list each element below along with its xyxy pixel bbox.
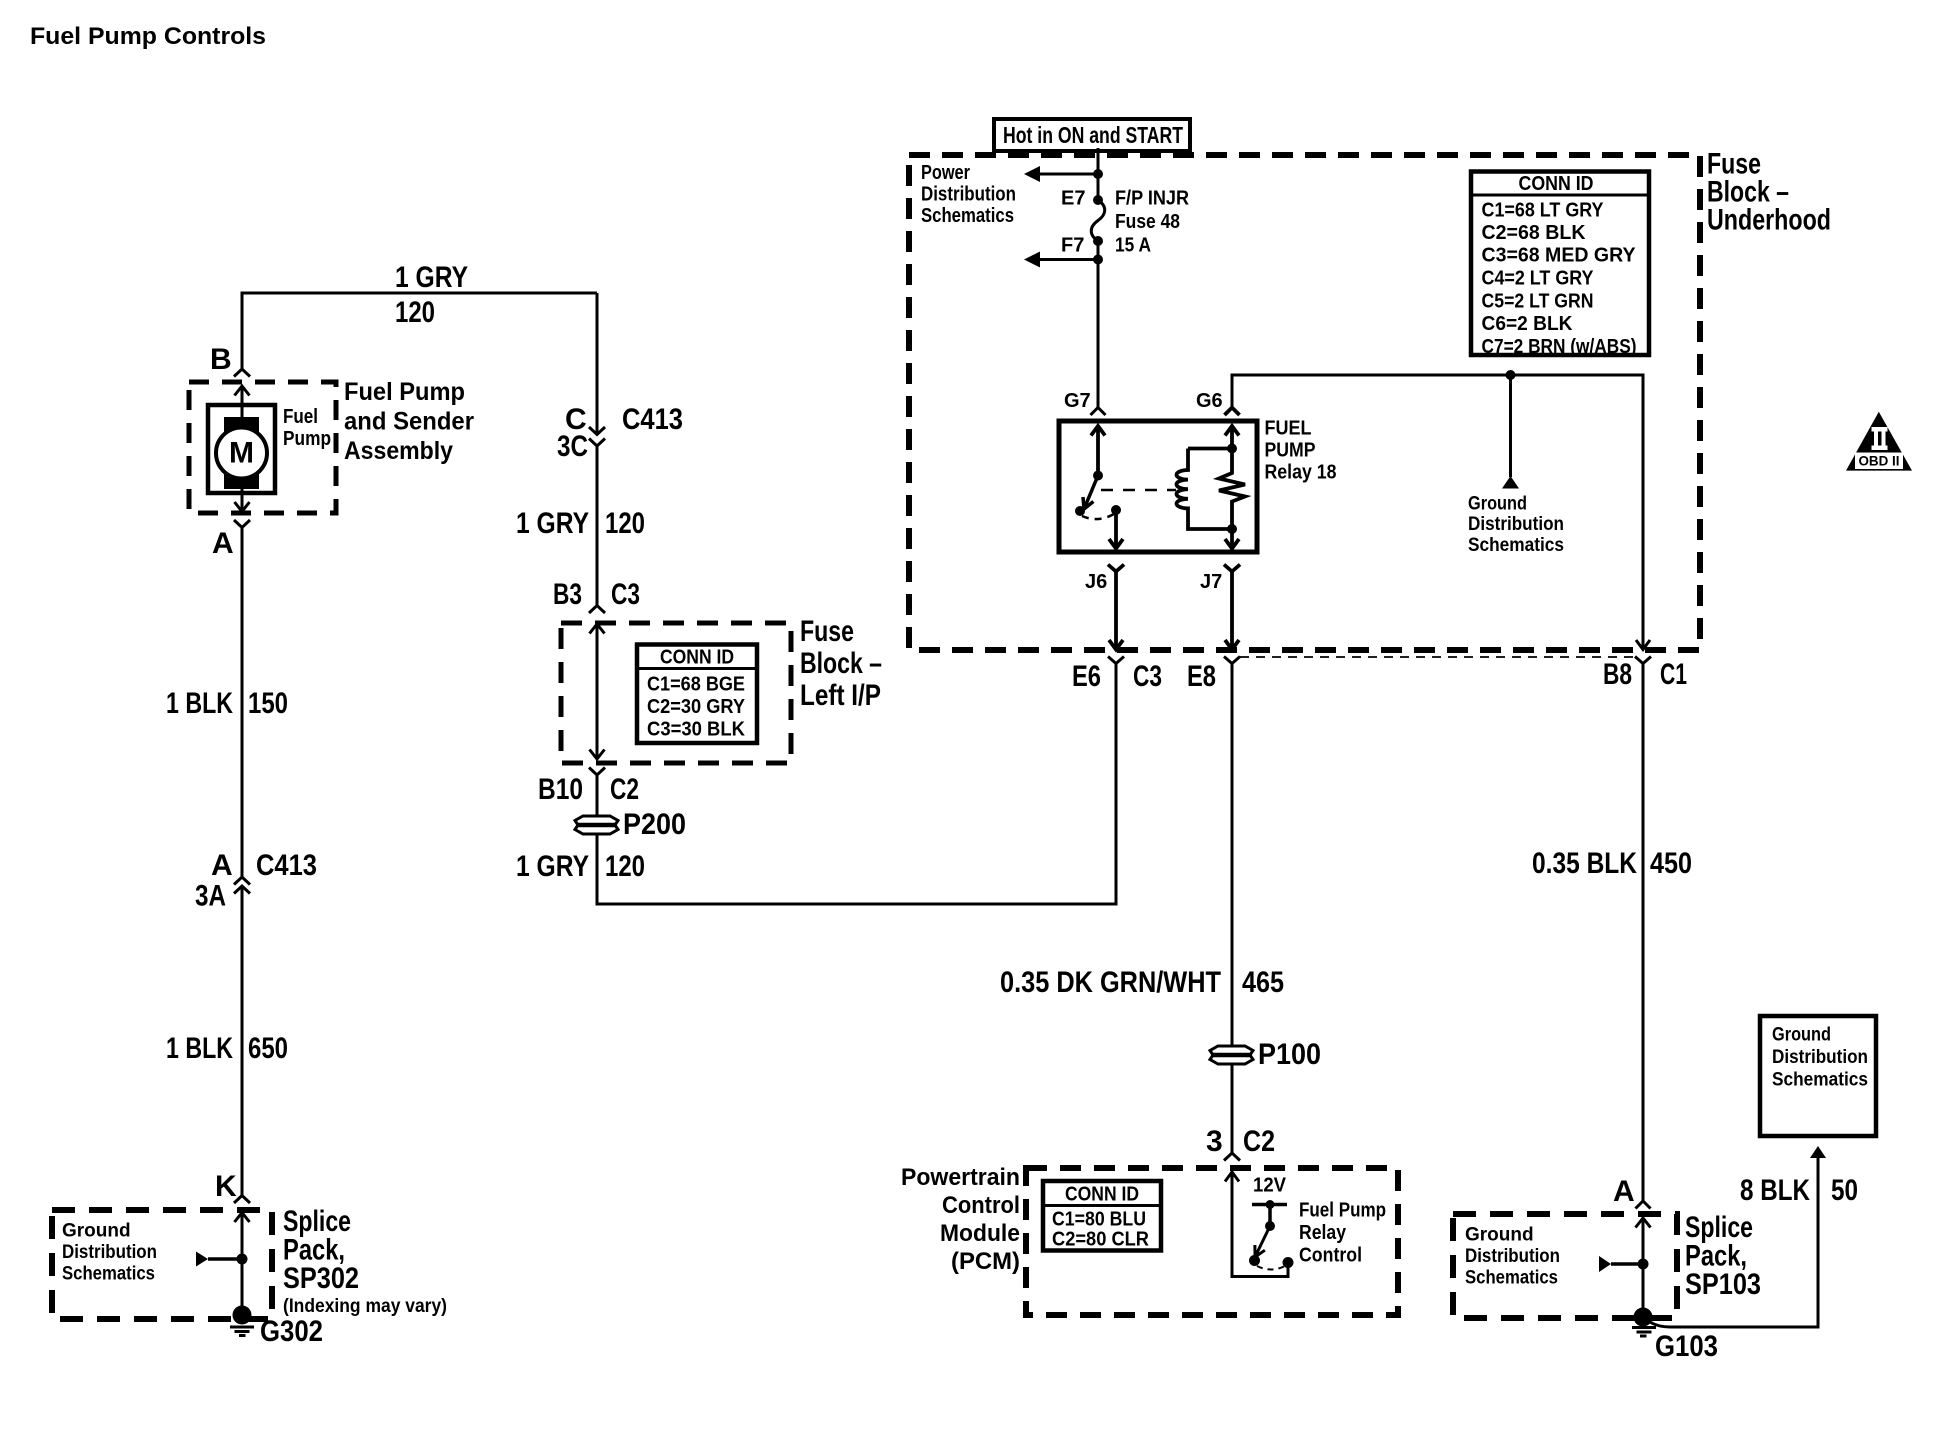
splice bus arrow SP302 xyxy=(196,1252,208,1267)
fuse block left I/P dashed box xyxy=(561,623,791,763)
svg-text:120: 120 xyxy=(395,296,435,329)
svg-text:12V: 12V xyxy=(1253,1175,1287,1197)
connector C1 interface dashed line xyxy=(1240,656,1636,658)
svg-text:G302: G302 xyxy=(260,1315,323,1348)
svg-text:C1=80 BLU: C1=80 BLU xyxy=(1052,1209,1146,1231)
svg-text:150: 150 xyxy=(248,687,288,720)
svg-text:Fuel Pump: Fuel Pump xyxy=(344,378,465,406)
wire hot feed into box xyxy=(1097,148,1100,199)
svg-text:1 GRY: 1 GRY xyxy=(516,850,589,883)
splice P200 xyxy=(575,816,618,834)
svg-text:Ground: Ground xyxy=(1465,1225,1534,1246)
junction dot SP103 xyxy=(1638,1259,1649,1270)
svg-text:0.35 DK GRN/WHT: 0.35 DK GRN/WHT xyxy=(1000,966,1221,999)
relay switch travel dashed arc xyxy=(1082,514,1114,519)
wire power distribution arrow F7 xyxy=(1039,258,1098,261)
ground G302 xyxy=(233,1306,252,1325)
svg-text:Module: Module xyxy=(940,1220,1020,1247)
connector C413 3A chevrons xyxy=(234,877,250,885)
fuse terminal dot F7 xyxy=(1093,236,1103,246)
svg-text:1 GRY: 1 GRY xyxy=(516,507,589,540)
connector E8 chevron xyxy=(1224,657,1240,664)
svg-text:3A: 3A xyxy=(195,880,226,913)
conn id table (underhood) xyxy=(1471,172,1649,356)
svg-text:A: A xyxy=(211,849,233,882)
connector G7 chevron xyxy=(1091,408,1106,416)
splice pack SP103 pin arrow xyxy=(1636,1218,1651,1228)
svg-text:C2: C2 xyxy=(1243,1125,1275,1158)
svg-text:E8: E8 xyxy=(1187,660,1216,693)
svg-text:Ground: Ground xyxy=(62,1221,131,1242)
svg-text:A: A xyxy=(212,527,234,560)
svg-text:and Sender: and Sender xyxy=(344,408,474,436)
svg-text:OBD II: OBD II xyxy=(1859,453,1900,469)
wire P100 to PCM xyxy=(1231,1064,1234,1153)
motor M1 circle xyxy=(216,428,267,479)
svg-text:C2=30 GRY: C2=30 GRY xyxy=(647,696,746,718)
svg-text:Fuel: Fuel xyxy=(283,406,318,428)
svg-text:Relay: Relay xyxy=(1299,1222,1347,1244)
pcm driver lever xyxy=(1255,1226,1270,1257)
hot in ON and START box xyxy=(994,119,1190,151)
wire 1 BLK 150 vertical xyxy=(241,528,244,878)
svg-text:C2: C2 xyxy=(610,773,639,806)
wire 1 BLK 650 vertical xyxy=(241,886,244,1196)
wire G6 pin xyxy=(1225,426,1239,436)
svg-text:15 A: 15 A xyxy=(1115,235,1151,257)
connector B3 chevron xyxy=(589,606,605,614)
svg-text:F/P INJR: F/P INJR xyxy=(1115,188,1190,210)
svg-text:C413: C413 xyxy=(256,849,317,882)
svg-text:C3=68 MED GRY: C3=68 MED GRY xyxy=(1482,245,1637,267)
wire J7 pin xyxy=(1230,529,1234,547)
wire 1 GRY 120 to fuse block xyxy=(596,446,599,606)
junction dot rail xyxy=(1506,370,1516,380)
svg-text:E7: E7 xyxy=(1061,188,1085,210)
svg-text:(Indexing may vary): (Indexing may vary) xyxy=(283,1296,447,1317)
svg-text:B3: B3 xyxy=(553,578,582,611)
svg-text:E6: E6 xyxy=(1072,660,1101,693)
svg-text:Ground: Ground xyxy=(1468,494,1527,515)
svg-text:8 BLK: 8 BLK xyxy=(1740,1174,1810,1207)
arrowhead left E7 xyxy=(1024,166,1040,182)
svg-text:C1: C1 xyxy=(1660,658,1687,691)
svg-text:(PCM): (PCM) xyxy=(951,1248,1020,1275)
svg-text:Pump: Pump xyxy=(283,428,331,450)
connector B8 chevron xyxy=(1635,657,1651,664)
fuel pump and sender assembly dashed box xyxy=(189,382,336,513)
svg-text:C413: C413 xyxy=(622,403,683,436)
relay switch common dot xyxy=(1093,471,1103,481)
coil terminal dot top xyxy=(1227,444,1237,454)
splice P100 xyxy=(1210,1046,1253,1064)
svg-text:650: 650 xyxy=(248,1032,288,1065)
svg-text:C3=30 BLK: C3=30 BLK xyxy=(647,719,746,741)
wire contact to J6 xyxy=(1114,510,1118,547)
svg-text:CONN ID: CONN ID xyxy=(1519,173,1594,195)
svg-text:SP103: SP103 xyxy=(1685,1268,1761,1301)
svg-text:B10: B10 xyxy=(538,773,583,806)
svg-text:C2=68 BLK: C2=68 BLK xyxy=(1482,222,1587,244)
wire motor to pin A xyxy=(241,489,244,510)
svg-text:3C: 3C xyxy=(557,430,588,463)
svg-text:Control: Control xyxy=(942,1192,1020,1219)
connector J7 chevron xyxy=(1224,565,1240,572)
svg-text:Schematics: Schematics xyxy=(62,1264,155,1285)
splice pack SP103 dashed box xyxy=(1453,1214,1677,1318)
ground distribution schematics solid box xyxy=(1760,1016,1876,1136)
svg-text:Control: Control xyxy=(1299,1245,1362,1267)
svg-text:C1=68 LT GRY: C1=68 LT GRY xyxy=(1482,200,1605,222)
pcm dashed box xyxy=(1026,1168,1398,1315)
svg-text:Schematics: Schematics xyxy=(921,205,1014,227)
wire P200 down right and up to E6 xyxy=(597,664,1116,905)
resistor R1 xyxy=(1219,449,1245,530)
pcm pin 3 arrow xyxy=(1225,1172,1239,1182)
junction dot SP302 xyxy=(237,1254,248,1265)
svg-text:1 BLK: 1 BLK xyxy=(166,1032,233,1065)
arrowhead left F7 xyxy=(1024,252,1040,268)
fuse terminal dot E7 xyxy=(1093,195,1103,205)
svg-text:50: 50 xyxy=(1831,1174,1858,1207)
svg-text:C7=2 BRN (w/ABS): C7=2 BRN (w/ABS) xyxy=(1482,336,1637,358)
svg-text:G103: G103 xyxy=(1655,1330,1718,1363)
junction dot F7 row xyxy=(1093,255,1103,265)
pcm driver pivot dot xyxy=(1249,1255,1260,1266)
fuel pump outline xyxy=(208,405,275,493)
relay switch lever xyxy=(1083,476,1098,510)
wire ground ref branch xyxy=(1509,375,1512,477)
svg-text:J7: J7 xyxy=(1200,571,1222,593)
svg-text:C1=68 BGE: C1=68 BGE xyxy=(647,674,745,696)
svg-text:Ground: Ground xyxy=(1772,1025,1831,1046)
junction dot E7 row xyxy=(1093,169,1103,179)
svg-text:K: K xyxy=(215,1170,237,1203)
wire B connector chevron xyxy=(234,369,250,377)
ground ref triangle xyxy=(1502,476,1519,489)
ground G103 xyxy=(1634,1308,1653,1327)
relay K18 box xyxy=(1059,421,1257,552)
svg-text:Relay 18: Relay 18 xyxy=(1265,462,1337,484)
svg-text:A: A xyxy=(1613,1175,1635,1208)
svg-text:C5=2 LT GRN: C5=2 LT GRN xyxy=(1482,291,1594,313)
svg-text:Underhood: Underhood xyxy=(1707,204,1831,237)
relay contact dot J6 xyxy=(1111,505,1121,515)
svg-text:Assembly: Assembly xyxy=(344,437,453,465)
svg-text:Schematics: Schematics xyxy=(1468,535,1564,556)
connector G6 chevron xyxy=(1225,408,1240,416)
svg-text:Fuel Pump Controls: Fuel Pump Controls xyxy=(30,23,266,50)
svg-text:Left I/P: Left I/P xyxy=(800,679,881,712)
svg-text:B8: B8 xyxy=(1603,658,1632,691)
svg-text:C6=2 BLK: C6=2 BLK xyxy=(1482,313,1574,335)
svg-text:J6: J6 xyxy=(1085,571,1107,593)
svg-text:P200: P200 xyxy=(623,808,686,841)
svg-text:Schematics: Schematics xyxy=(1465,1268,1558,1289)
svg-text:465: 465 xyxy=(1242,966,1284,999)
svg-text:1 GRY: 1 GRY xyxy=(395,261,468,294)
svg-text:C3: C3 xyxy=(611,578,640,611)
fuse F48 element xyxy=(1091,200,1105,241)
svg-text:Fuse: Fuse xyxy=(800,615,854,648)
fuse block pin B3 arrow xyxy=(590,624,605,634)
svg-text:G6: G6 xyxy=(1196,390,1223,412)
svg-text:P100: P100 xyxy=(1258,1038,1321,1071)
coil terminal dot bottom xyxy=(1227,524,1237,534)
svg-text:1 BLK: 1 BLK xyxy=(166,687,233,720)
ground distribution ref triangle (8 BLK) xyxy=(1810,1146,1826,1158)
svg-text:3: 3 xyxy=(1206,1125,1223,1158)
wire fuel pump relay control driver xyxy=(1232,1172,1288,1277)
OBD II symbol xyxy=(1846,412,1912,471)
svg-text:SP302: SP302 xyxy=(283,1262,359,1295)
svg-text:CONN ID: CONN ID xyxy=(1065,1184,1139,1206)
motor M1 commutator blocks xyxy=(224,417,259,433)
connector A chevron (SP103) xyxy=(1636,1201,1651,1209)
relay switch pivot dot xyxy=(1075,506,1085,516)
wire B8 to SP103 xyxy=(1642,664,1645,1202)
svg-text:Distribution: Distribution xyxy=(1468,514,1564,535)
wire 1 GRY down to C413 xyxy=(596,293,599,434)
svg-text:Distribution: Distribution xyxy=(1772,1047,1868,1068)
wire fuse to relay G7 xyxy=(1097,260,1100,408)
svg-text:Block –: Block – xyxy=(800,647,882,680)
svg-text:0.35 BLK: 0.35 BLK xyxy=(1532,847,1637,880)
wire J7 to E8 xyxy=(1230,572,1234,649)
connector J6 chevron xyxy=(1108,565,1124,572)
pcm driver lever dot xyxy=(1265,1221,1275,1231)
splice pack SP302 pin arrow xyxy=(235,1213,250,1223)
splice pack SP302 dashed box xyxy=(52,1210,272,1319)
svg-text:Hot in ON and START: Hot in ON and START xyxy=(1003,122,1183,148)
wire K connector chevron xyxy=(234,1196,250,1204)
svg-text:G7: G7 xyxy=(1064,390,1091,412)
wire power distribution arrow E7 xyxy=(1039,173,1098,176)
connector E6 chevron xyxy=(1108,657,1124,664)
svg-text:120: 120 xyxy=(605,850,645,883)
splice bus arrow SP103 xyxy=(1599,1256,1611,1272)
svg-text:C3: C3 xyxy=(1133,660,1162,693)
fuse block pin B10 arrow xyxy=(590,750,605,760)
wire B10 to P200 xyxy=(596,775,599,816)
relay coil L1 xyxy=(1177,449,1233,530)
conn id table (PCM) xyxy=(1043,1181,1161,1251)
relay pin G7 arrow xyxy=(1091,426,1105,436)
fuse block underhood dashed box xyxy=(909,155,1700,650)
connector B10 chevron xyxy=(589,768,605,776)
svg-text:C4=2 LT GRY: C4=2 LT GRY xyxy=(1482,268,1595,290)
connector C2 pin3 chevron xyxy=(1224,1153,1240,1161)
pcm driver travel dashed arc xyxy=(1257,1266,1285,1270)
svg-text:F7: F7 xyxy=(1061,235,1084,257)
svg-text:FUEL: FUEL xyxy=(1265,418,1312,440)
wire G6 rail to B8 xyxy=(1232,375,1643,648)
svg-text:Fuse 48: Fuse 48 xyxy=(1115,211,1180,233)
svg-text:Distribution: Distribution xyxy=(1465,1246,1560,1267)
svg-text:120: 120 xyxy=(605,507,645,540)
wire A connector chevron xyxy=(234,520,250,528)
relay coil link dashed xyxy=(1101,489,1176,492)
svg-text:Schematics: Schematics xyxy=(1772,1070,1868,1091)
wire J6 to E6 xyxy=(1114,572,1118,649)
svg-text:Fuel Pump: Fuel Pump xyxy=(1299,1200,1386,1222)
pcm driver 12V bar xyxy=(1252,1203,1287,1207)
conn id table (left I/P) xyxy=(637,645,757,744)
svg-text:B: B xyxy=(210,343,232,376)
svg-text:PUMP: PUMP xyxy=(1265,440,1316,462)
wire E8 to P100 xyxy=(1231,664,1234,1047)
svg-text:Powertrain: Powertrain xyxy=(901,1164,1020,1191)
pcm driver contact dot xyxy=(1283,1257,1294,1268)
svg-text:Distribution: Distribution xyxy=(62,1242,157,1263)
wire fuse to junction F7 xyxy=(1097,241,1100,260)
svg-text:C2=80 CLR: C2=80 CLR xyxy=(1052,1229,1150,1251)
svg-text:M: M xyxy=(229,437,254,470)
svg-text:CONN ID: CONN ID xyxy=(660,647,734,669)
wire G103 to 8 BLK 50 xyxy=(1650,1157,1818,1327)
svg-text:Distribution: Distribution xyxy=(921,184,1016,206)
svg-text:450: 450 xyxy=(1650,847,1692,880)
fuel pump pin B arrow xyxy=(235,386,250,396)
connector C413 3C chevrons xyxy=(589,427,605,435)
svg-text:Power: Power xyxy=(921,162,970,184)
wire 1 GRY 120 top horizontal xyxy=(242,293,597,369)
